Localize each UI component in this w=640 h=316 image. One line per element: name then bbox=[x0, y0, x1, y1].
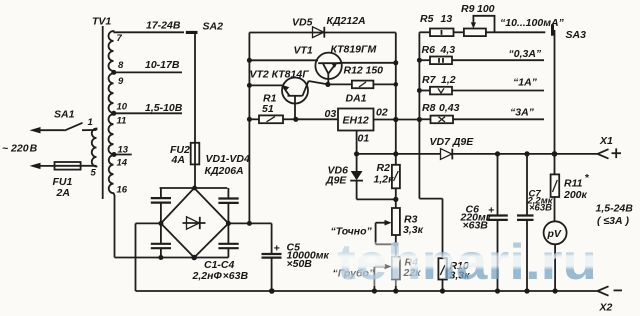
transformer TV1 secondary winding section 11-13 bbox=[109, 113, 114, 154]
svg-text:51: 51 bbox=[262, 103, 274, 115]
svg-text:КТ819ГМ: КТ819ГМ bbox=[331, 44, 377, 56]
transistor VT2 bbox=[282, 78, 328, 120]
resistor R3 potentiometer bbox=[392, 208, 400, 235]
wire DA1 pin 01 down bbox=[356, 131, 358, 154]
wire SA3 bus down to output bbox=[554, 30, 556, 154]
capacitor C3 bbox=[151, 244, 171, 248]
svg-text:~ 220В: ~ 220В bbox=[2, 143, 38, 155]
svg-text:0,43: 0,43 bbox=[439, 102, 460, 114]
resistor R2 bbox=[392, 165, 400, 189]
svg-text:“10...100мА”: “10...100мА” bbox=[500, 17, 565, 29]
svg-text:R2: R2 bbox=[377, 162, 391, 174]
capacitor C7 bbox=[517, 154, 534, 294]
switch SA2 contact bar bbox=[186, 31, 198, 34]
svg-text:9: 9 bbox=[118, 76, 124, 87]
svg-text:10-17В: 10-17В bbox=[145, 59, 180, 71]
node DA1 adj node bbox=[354, 151, 359, 156]
resistor R9 rheostat bbox=[464, 16, 545, 36]
wire right bus upper bbox=[395, 33, 397, 165]
wire VT1 base rail bbox=[247, 58, 318, 63]
svg-text:R5: R5 bbox=[420, 13, 434, 25]
mains terminal arrow lower bbox=[30, 163, 55, 169]
resistor R10 bbox=[438, 258, 446, 293]
capacitor C2 bbox=[218, 199, 238, 203]
transformer TV1 secondary winding section 14-16 bbox=[109, 155, 115, 196]
resistor R4 potentiometer bbox=[392, 257, 400, 280]
node C6 top bbox=[495, 151, 500, 156]
wire top rail with VD5 bbox=[249, 32, 395, 34]
wire left vertex to minus drop bbox=[136, 222, 161, 224]
mains terminal arrow upper bbox=[30, 127, 65, 133]
svg-text:13: 13 bbox=[441, 13, 453, 25]
resistor R7 bbox=[430, 87, 544, 95]
resistor R11 bbox=[551, 154, 560, 221]
svg-text:( ≤3А ): ( ≤3А ) bbox=[597, 215, 630, 227]
capacitor C6 polarized bbox=[487, 154, 508, 294]
node C7 top bbox=[524, 151, 529, 156]
wire VT2 base rail bbox=[247, 83, 283, 88]
node VT1 emitter junction bbox=[325, 82, 330, 87]
node bridge top vertex bbox=[192, 186, 197, 191]
wire R3 to R4 bbox=[395, 235, 397, 257]
diode VD6 bbox=[350, 154, 398, 202]
svg-text:“3А”: “3А” bbox=[510, 107, 535, 119]
svg-text:11: 11 bbox=[117, 116, 127, 127]
svg-text:×63В: ×63В bbox=[529, 203, 552, 214]
svg-text:X1: X1 bbox=[599, 135, 613, 147]
svg-text:02: 02 bbox=[376, 107, 388, 119]
svg-text:5: 5 bbox=[91, 168, 97, 179]
svg-text:SA1: SA1 bbox=[54, 109, 75, 121]
wire R10 branch bbox=[419, 120, 442, 259]
capacitor C1 bbox=[151, 198, 171, 203]
node R1 VT2 emitter junction bbox=[293, 117, 298, 122]
wire C5 top stub bbox=[271, 223, 273, 254]
node bridge bottom vertex bbox=[191, 255, 197, 261]
svg-text:R7: R7 bbox=[422, 74, 437, 86]
svg-text:14: 14 bbox=[117, 158, 128, 169]
resistor R6 bbox=[430, 57, 544, 65]
diode bridge VD1-VD4 diamond bbox=[161, 188, 229, 258]
svg-text:R8: R8 bbox=[422, 102, 436, 114]
svg-text:SA3: SA3 bbox=[566, 29, 587, 41]
svg-text:1,2к: 1,2к bbox=[374, 174, 395, 186]
wire junction to R12 bbox=[328, 83, 352, 85]
wire junction to DA1 pin 03 bbox=[296, 118, 338, 120]
wire SA2 bus down to FU2 bbox=[194, 33, 196, 143]
terminal X2 bbox=[598, 286, 609, 295]
fuse FU1 bbox=[55, 162, 97, 170]
wire bridge AC bottom side bbox=[115, 257, 229, 259]
svg-text:R12: R12 bbox=[344, 65, 363, 77]
svg-text:КД206А: КД206А bbox=[205, 165, 244, 177]
wire right cap chain upper stub bbox=[227, 188, 229, 199]
svg-text:VT1: VT1 bbox=[294, 45, 313, 57]
svg-text:1,2: 1,2 bbox=[441, 74, 456, 86]
wire R2 to R3 bbox=[395, 188, 397, 208]
node R2 top junction bbox=[393, 151, 398, 156]
wire R1 row from left bus bbox=[247, 117, 259, 122]
svg-text:VD5: VD5 bbox=[292, 17, 313, 29]
svg-text:10: 10 bbox=[117, 102, 128, 113]
diode VD7 bbox=[441, 149, 598, 160]
svg-text:VT2 КТ814Г: VT2 КТ814Г bbox=[250, 69, 310, 81]
switch SA3 contact bar bbox=[551, 24, 554, 35]
wire DA1 pin 02 to buses bbox=[374, 117, 423, 122]
R4 wiper arm Grubo bbox=[372, 264, 392, 294]
wire C5 bottom to rail bbox=[269, 258, 275, 294]
svg-text:X2: X2 bbox=[599, 302, 613, 314]
transistor VT1 bbox=[315, 53, 398, 85]
wire left cap chain upper stub bbox=[160, 188, 162, 198]
svg-text:×50В: ×50В bbox=[287, 258, 313, 270]
IC DA1 EN12 bbox=[338, 109, 374, 131]
fuse FU2 bbox=[191, 143, 200, 165]
node pins 8-9 junction bbox=[111, 70, 182, 75]
svg-text:“0,3А”: “0,3А” bbox=[509, 48, 542, 60]
wire tap 17-24V bbox=[114, 31, 185, 33]
wire C1 to left vertex to C3 bbox=[160, 203, 162, 244]
diode VD5 bbox=[313, 27, 325, 38]
svg-text:2А: 2А bbox=[56, 187, 70, 199]
svg-text:1: 1 bbox=[88, 117, 93, 128]
transformer TV1 secondary winding section 7-8 bbox=[109, 31, 114, 72]
wire bridge top rail bbox=[160, 187, 228, 189]
svg-text:8: 8 bbox=[118, 60, 124, 71]
node output plus junction bbox=[552, 151, 558, 157]
wire minus drop vertical bbox=[135, 223, 137, 291]
svg-text:7: 7 bbox=[117, 33, 123, 44]
node C3 bottom junction bbox=[158, 255, 163, 260]
svg-text:“1А”: “1А” bbox=[513, 77, 538, 89]
node bridge left vertex bbox=[158, 221, 163, 226]
wire plus line right vertex to C5 bbox=[228, 222, 271, 224]
svg-text:ЕН12: ЕН12 bbox=[343, 115, 369, 127]
svg-text:17-24В: 17-24В bbox=[146, 20, 181, 32]
wire C2 to right vertex to C4 bbox=[227, 203, 229, 244]
bridge inner diode symbol bbox=[183, 217, 206, 229]
transformer core bbox=[102, 26, 104, 199]
wire R4 bottom to rail bbox=[393, 279, 398, 293]
R3 wiper arm Tochno bbox=[376, 220, 399, 247]
wire R6 row bbox=[417, 58, 430, 63]
svg-text:150: 150 bbox=[366, 65, 384, 77]
svg-text:SA2: SA2 bbox=[203, 21, 224, 33]
node bridge right vertex bbox=[226, 221, 231, 226]
resistor R12 bbox=[352, 81, 398, 89]
svg-text:2,2нФ×63В: 2,2нФ×63В bbox=[192, 270, 249, 282]
node pins 10-11 junction bbox=[111, 111, 182, 116]
node plus line to VT bus junction bbox=[247, 221, 252, 226]
resistor R8 bbox=[419, 116, 544, 124]
svg-text:1,5-24В: 1,5-24В bbox=[596, 203, 634, 215]
terminal X1 bbox=[598, 149, 609, 158]
wire R7 row bbox=[417, 88, 430, 93]
transformer TV1 primary winding bbox=[92, 129, 97, 167]
svg-text:×63В: ×63В bbox=[463, 220, 489, 232]
svg-text:4,3: 4,3 bbox=[440, 44, 456, 56]
svg-text:1,5-10В: 1,5-10В bbox=[145, 102, 183, 114]
svg-text:Д9Е: Д9Е bbox=[325, 175, 347, 187]
svg-text:+: + bbox=[274, 243, 280, 255]
wire secondary pin16 down bbox=[114, 195, 116, 258]
svg-text:4А: 4А bbox=[171, 154, 185, 166]
wire adj node to VD7 bbox=[357, 153, 441, 155]
svg-text:R6: R6 bbox=[422, 44, 436, 56]
capacitor C4 bbox=[218, 244, 238, 248]
wire C3 to bottom side bbox=[160, 248, 162, 257]
wire VT section left bus bbox=[248, 33, 250, 224]
svg-text:200к: 200к bbox=[563, 189, 588, 201]
voltmeter PV bbox=[544, 221, 567, 293]
resistor R1 bbox=[259, 115, 296, 123]
switch SA1 bbox=[65, 123, 97, 131]
svg-text:VD7 Д9Е: VD7 Д9Е bbox=[430, 136, 475, 148]
wire bottom minus rail bbox=[136, 290, 598, 292]
label X2 minus bbox=[614, 289, 623, 291]
svg-text:100: 100 bbox=[477, 3, 495, 15]
svg-text:КД212А: КД212А bbox=[327, 15, 366, 27]
wire shunt ladder left bus bbox=[418, 32, 420, 119]
wire R5 row stub bbox=[419, 31, 430, 33]
capacitor C5 polarized bbox=[262, 254, 282, 258]
transformer TV1 secondary winding section 9-10 bbox=[109, 72, 114, 113]
svg-text:DA1: DA1 bbox=[346, 93, 367, 105]
svg-text:R11: R11 bbox=[564, 178, 583, 190]
svg-text:01: 01 bbox=[358, 133, 370, 145]
wire FU2 to bridge top vertex bbox=[194, 164, 196, 188]
node pins 13-14 junction bbox=[112, 152, 132, 157]
svg-text:R9: R9 bbox=[461, 3, 475, 15]
label X1 plus bbox=[612, 148, 622, 158]
svg-text:16: 16 bbox=[117, 185, 128, 196]
svg-text:VD1-VD4: VD1-VD4 bbox=[206, 153, 251, 165]
svg-text:03: 03 bbox=[325, 108, 337, 120]
svg-text:TV1: TV1 bbox=[92, 16, 111, 28]
resistor R5 bbox=[430, 29, 464, 37]
wire C4 to bottom side bbox=[227, 248, 229, 257]
